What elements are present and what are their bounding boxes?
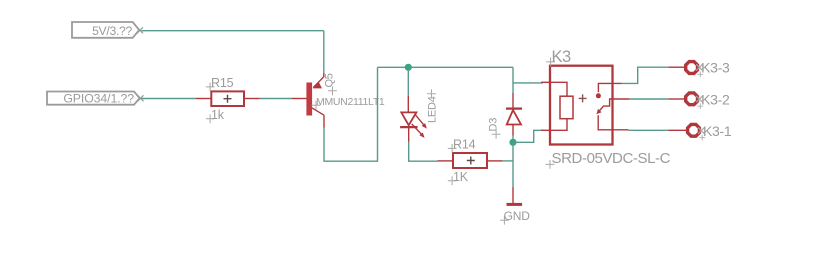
diode D3 [487,93,522,139]
wire Q5 collector loop [324,67,378,161]
relay K3 [541,48,671,169]
wire R14 to node [503,160,513,162]
junction node at D3 bottom [509,139,516,146]
svg-text:R15: R15 [211,76,234,90]
coil [560,96,573,119]
svg-text:K3: K3 [552,48,572,66]
svg-text:K3-2: K3-2 [701,91,730,107]
svg-text:K3-1: K3-1 [703,123,732,139]
svg-text:1k: 1k [211,108,225,122]
pad K3-1 [688,123,732,141]
svg-text:1K: 1K [453,170,469,184]
net flag GPIO34/1.?? [47,92,144,106]
contact NC bottom [598,115,628,130]
wire common to K3-2 [613,98,630,100]
wire D3 to junction [512,136,514,143]
wire R15 to Q5 base [260,98,292,100]
origin cross [579,94,587,102]
svg-text:D3: D3 [487,118,499,132]
pad K3-3 [686,60,730,78]
transistor Q5 [291,73,385,128]
label SRD-05VDC-SL-C [546,160,555,169]
coil pin top [541,82,567,96]
resistor R15 [196,76,260,123]
ground GND [500,187,530,225]
svg-text:LED4: LED4 [426,96,438,123]
svg-text:5V/3.??: 5V/3.?? [92,24,132,38]
svg-text:K3-3: K3-3 [701,60,730,76]
wire top rail down at D3 column [512,67,514,93]
wire GPIO34 to R15 [142,98,196,100]
pad K3-2 [686,91,730,109]
wire junction to GND [512,142,514,187]
svg-text:SRD-05VDC-SL-C: SRD-05VDC-SL-C [552,150,671,167]
svg-text:MMUN2111LT1: MMUN2111LT1 [316,96,385,108]
wire NO contact to K3-3 [622,67,669,83]
svg-text:R14: R14 [453,137,476,151]
wire NC to K3-1 [629,129,669,131]
junction node at LED anode [405,64,412,71]
label K3 [546,58,555,67]
net flag 5V/3.?? [72,22,143,38]
contact NO top [598,83,621,92]
wire LED cathode to R14 [409,142,438,162]
coil pin bottom [541,119,567,131]
wire junction down to LED [407,67,409,96]
pin wire K3-3 [668,66,684,68]
wire D3 top to relay coil top [513,82,543,84]
LED LED4 [400,89,438,141]
wire junction to coil bottom [513,130,543,142]
wire 5V vertical to Q5 emitter [323,31,325,73]
wire 5V horizontal [142,30,324,32]
resistor R14 [438,137,503,185]
svg-text:Q5: Q5 [324,73,336,87]
svg-text:GPIO34/1.??: GPIO34/1.?? [63,92,134,106]
svg-text:GND: GND [504,209,531,223]
wire top rail [378,66,514,68]
contact common armature [598,99,612,112]
